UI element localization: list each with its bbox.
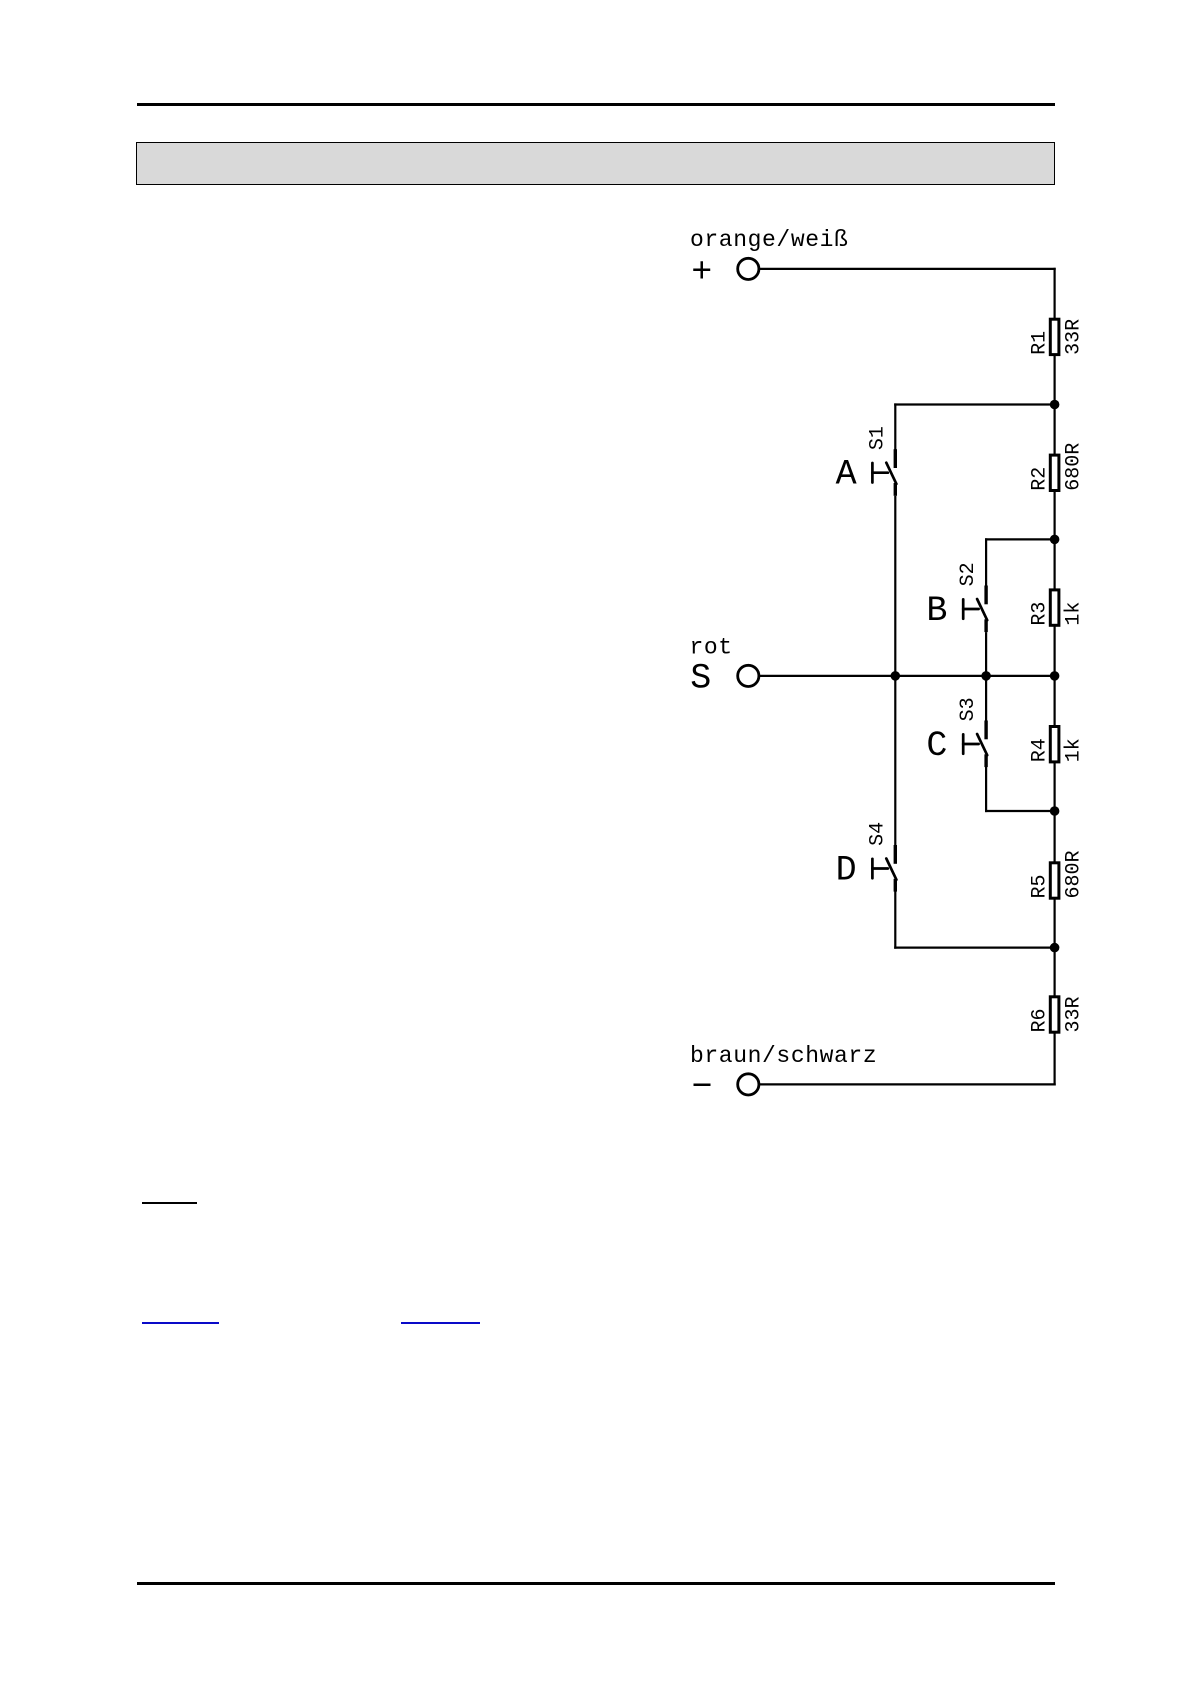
svg-text:orange/weiß: orange/weiß — [690, 227, 848, 253]
svg-text:1k: 1k — [1062, 738, 1085, 762]
svg-text:680R: 680R — [1062, 850, 1085, 898]
svg-text:33R: 33R — [1062, 319, 1085, 355]
svg-text:R4: R4 — [1029, 738, 1052, 762]
svg-text:S3: S3 — [957, 697, 980, 721]
svg-text:braun/schwarz: braun/schwarz — [690, 1043, 877, 1069]
svg-text:R3: R3 — [1029, 602, 1052, 626]
svg-text:C: C — [926, 726, 947, 766]
svg-text:33R: 33R — [1062, 996, 1085, 1032]
svg-text:rot: rot — [690, 635, 733, 661]
svg-text:R2: R2 — [1029, 467, 1052, 491]
svg-text:R5: R5 — [1029, 874, 1052, 898]
svg-text:S4: S4 — [866, 822, 889, 846]
svg-text:S1: S1 — [866, 426, 889, 450]
svg-text:S2: S2 — [957, 562, 980, 586]
svg-text:680R: 680R — [1062, 443, 1085, 491]
svg-text:D: D — [836, 851, 857, 891]
svg-text:R1: R1 — [1029, 331, 1052, 355]
svg-text:S: S — [690, 659, 711, 699]
svg-text:R6: R6 — [1029, 1008, 1052, 1032]
svg-text:1k: 1k — [1062, 602, 1085, 626]
svg-text:B: B — [926, 591, 947, 631]
svg-text:+: + — [691, 252, 712, 292]
svg-text:A: A — [836, 455, 857, 495]
svg-text:−: − — [691, 1067, 712, 1107]
